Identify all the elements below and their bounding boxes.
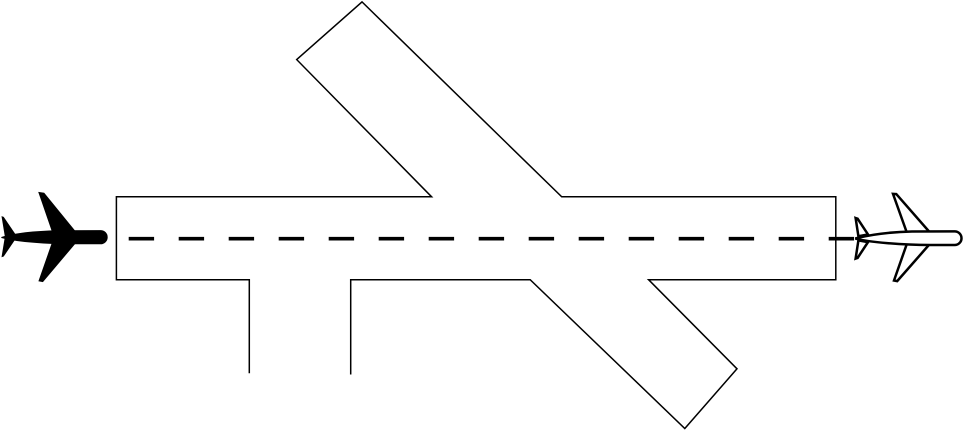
- white airplane (outline, right, facing right): [856, 194, 962, 281]
- top wing: [38, 192, 76, 233]
- bottom tail fin: [856, 240, 868, 258]
- fuselage: [856, 231, 961, 245]
- bottom wing: [894, 244, 930, 282]
- black airplane (filled silhouette, left, facing right): [1, 192, 107, 282]
- bottom tail fin: [2, 237, 17, 257]
- runway outline (horizontal runway + crossing diagonal runway + two open taxiway stubs): [116, 2, 835, 429]
- bottom wing: [38, 242, 76, 282]
- top wing: [893, 194, 930, 233]
- dashed runway centerline: [129, 237, 855, 241]
- fuselage: [1, 230, 107, 244]
- top tail fin: [856, 218, 868, 236]
- top tail fin: [2, 216, 17, 236]
